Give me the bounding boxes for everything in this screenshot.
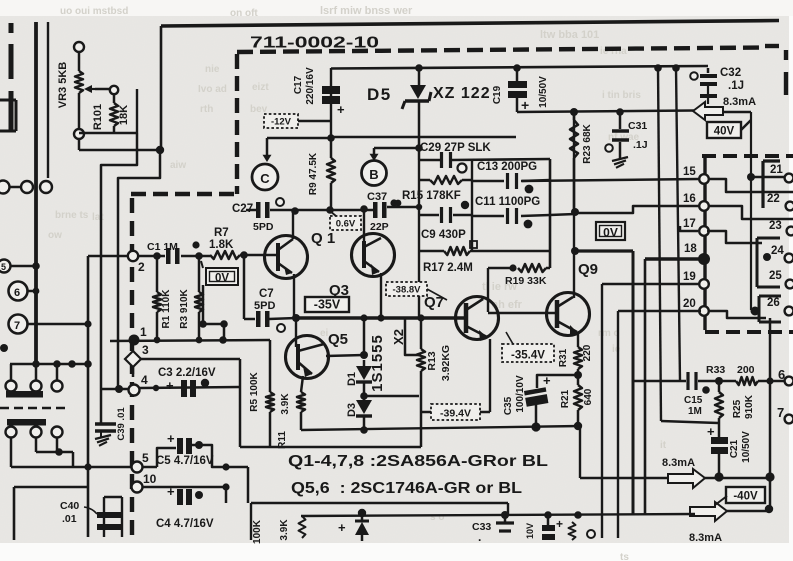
- svg-text:C37: C37: [367, 191, 387, 203]
- svg-text:i tin bris: i tin bris: [602, 90, 641, 101]
- svg-text:R15 178KF: R15 178KF: [402, 190, 461, 202]
- svg-text:R19 33K: R19 33K: [505, 275, 547, 287]
- svg-text:1M: 1M: [688, 406, 702, 417]
- svg-text:10/50V: 10/50V: [741, 431, 752, 463]
- svg-text:Q5: Q5: [328, 331, 348, 348]
- pin 10: [132, 472, 157, 493]
- svg-text:C32: C32: [720, 67, 741, 79]
- svg-text:B: B: [369, 167, 378, 182]
- svg-text:C7: C7: [259, 288, 274, 300]
- node junction C19: [513, 64, 521, 72]
- node VR3 bottom terminal: [74, 129, 84, 139]
- svg-text:0V: 0V: [215, 273, 229, 285]
- label .1J C31: [633, 139, 648, 151]
- dashed border corner top-right: [765, 46, 786, 95]
- dashed border jog horizontal: [131, 192, 237, 196]
- svg-text:Q5,6 : 2SC1746A-GR or BL: Q5,6 : 2SC1746A-GR or BL: [291, 480, 522, 497]
- svg-text:21: 21: [770, 164, 783, 176]
- wire y511: [727, 505, 773, 513]
- svg-text:lsrf miw bnss wer: lsrf miw bnss wer: [320, 5, 413, 17]
- svg-text:-40V: -40V: [733, 491, 758, 503]
- resistor R101: [110, 103, 118, 126]
- svg-text:R7: R7: [214, 227, 229, 239]
- wire bus1 elbow to C21: [661, 421, 718, 423]
- label Q1-4,7,8 2SA856A: [288, 453, 548, 470]
- wire right side of pot box: [136, 89, 138, 133]
- label C15: [684, 395, 703, 406]
- svg-text:ow: ow: [48, 230, 62, 241]
- label .1J C32: [728, 80, 744, 92]
- capacitor C4 4.7/16V: [167, 484, 203, 505]
- wire C13 row: [472, 180, 550, 181]
- svg-text:C9 430P: C9 430P: [421, 229, 466, 241]
- svg-text:Q1-4,7,8 :2SA856A-GRor BL: Q1-4,7,8 :2SA856A-GRor BL: [288, 453, 548, 470]
- svg-text:+: +: [167, 431, 175, 446]
- label 10/50V: [538, 76, 549, 108]
- node junction: [327, 134, 335, 142]
- svg-text:10/50V: 10/50V: [538, 76, 549, 108]
- pin 16: [683, 193, 709, 211]
- wire y324 link: [199, 320, 228, 328]
- ground C39: [95, 435, 111, 446]
- capacitor C7 5PD: [256, 311, 285, 332]
- wire pin16 feed y206: [575, 206, 699, 213]
- svg-text:5: 5: [142, 451, 149, 465]
- label C39 .01: [116, 407, 127, 441]
- label 8.3mA bottom: [689, 532, 722, 544]
- wire 40V leader: [741, 120, 751, 130]
- capacitor C37 22P: [373, 199, 398, 218]
- label D5: [367, 85, 392, 104]
- svg-text:-35V: -35V: [314, 298, 341, 312]
- wire 0.6V leader: [330, 211, 336, 216]
- label + bottom small: [556, 517, 563, 531]
- label D3: [346, 403, 358, 417]
- wire VR3 stem down: [78, 139, 81, 150]
- pin 6: [778, 367, 793, 385]
- label 8.3mA middle: [662, 457, 695, 469]
- label -35.4V dotted box: [502, 332, 554, 362]
- node junction Q1 collector: [291, 207, 299, 215]
- wire Q5 emitter down: [301, 376, 303, 392]
- wire C32 corner: [707, 68, 710, 73]
- label IS1555: [369, 334, 386, 392]
- resistor R1 110K: [153, 256, 161, 340]
- node junction x574 y251: [571, 247, 579, 255]
- wire pin10 right: [142, 483, 230, 490]
- label -40V box: [726, 487, 765, 503]
- resistor R9 47.5K: [327, 138, 335, 210]
- pin 1: [129, 325, 148, 346]
- resistor small bottom: [299, 516, 306, 538]
- label C17: [293, 75, 304, 94]
- svg-text:C40: C40: [60, 500, 79, 512]
- connector box around 24-25: [757, 238, 780, 287]
- svg-text:7: 7: [777, 405, 784, 420]
- label 8.3mA top: [723, 96, 756, 108]
- wire -12V leader: [298, 120, 331, 123]
- wire bus1 x659: [658, 68, 661, 421]
- capacitor C19: [508, 81, 527, 98]
- label Q9: [578, 261, 598, 278]
- capacitor C5 4.7/16V: [167, 431, 203, 454]
- connector box around 21: [763, 161, 780, 208]
- wire C11 row: [472, 215, 550, 216]
- svg-text:910K: 910K: [744, 394, 755, 419]
- svg-text:C3 2.2/16V: C3 2.2/16V: [158, 367, 216, 379]
- potentiometer VR3 5KB: [75, 71, 83, 93]
- svg-text:R9 47.5K: R9 47.5K: [308, 152, 319, 195]
- terminal circle pair: [0, 181, 52, 194]
- pin 2: [128, 251, 145, 274]
- terminal 5: [0, 260, 40, 273]
- resistor R11 3.9K: [297, 392, 305, 412]
- wire step from junction down-left: [118, 150, 160, 390]
- wire bottom box top y503: [251, 502, 508, 504]
- node junction y426: [574, 422, 582, 430]
- transistor Q2: [352, 209, 395, 322]
- label X2: [391, 329, 406, 345]
- wire C19 stem: [516, 68, 519, 81]
- wire y467 right: [226, 466, 248, 469]
- wire pin4 right: [140, 387, 240, 388]
- current arrow 8.3mA right: [668, 469, 705, 488]
- diode D3: [356, 382, 372, 430]
- svg-text:C35: C35: [503, 396, 514, 415]
- wire pin4 left: [101, 385, 128, 393]
- label C5 4.7/16V: [156, 455, 214, 467]
- label 3.9K: [280, 393, 291, 415]
- label R7: [214, 227, 229, 239]
- node junction C21 bottom: [714, 472, 723, 481]
- wire C35 top: [537, 375, 578, 388]
- capacitor C32: [690, 72, 717, 104]
- pin 7: [777, 405, 793, 423]
- wire R33 out: [758, 377, 784, 384]
- label C35: [503, 396, 514, 415]
- svg-text:R25: R25: [732, 399, 743, 418]
- wire R19 row: [488, 264, 550, 272]
- node junction R23: [570, 108, 578, 116]
- capacitor C11 1100PG: [508, 208, 533, 228]
- wire rail x419: [418, 160, 420, 318]
- svg-text:23: 23: [769, 220, 782, 232]
- transistor Q9: [547, 293, 590, 337]
- node junction x770 y477: [765, 472, 774, 481]
- svg-text:R5 100K: R5 100K: [249, 371, 260, 411]
- resistor R15 178KF: [419, 176, 472, 184]
- pin 24: [771, 245, 793, 262]
- label C1 1M: [147, 241, 200, 253]
- svg-text:22: 22: [767, 193, 780, 205]
- svg-text:R3 910K: R3 910K: [179, 288, 190, 328]
- wire x224 down: [219, 324, 227, 344]
- wire y112 rail: [517, 111, 694, 113]
- diode D1: [356, 360, 372, 382]
- node junction C3 left: [153, 385, 159, 391]
- decorative bleed-through: [48, 5, 667, 561]
- svg-text:C: C: [260, 171, 270, 186]
- svg-text:brne ts: brne ts: [55, 210, 89, 221]
- wire vertical x48: [47, 22, 49, 178]
- wire pin15 to pin22: [709, 179, 793, 192]
- svg-text:VR3 5KB: VR3 5KB: [57, 62, 69, 109]
- wire D5 box bottom right: [331, 136, 516, 139]
- svg-text:100/10V: 100/10V: [515, 375, 526, 413]
- capacitor C17 220/16V: [322, 86, 345, 117]
- pin 18 junction: [684, 243, 710, 265]
- wire step box corner down-left: [101, 133, 137, 424]
- switch bar upper: [6, 391, 43, 398]
- svg-text:100K: 100K: [252, 519, 263, 544]
- wire wiper to R101: [95, 88, 110, 91]
- svg-text:5PD: 5PD: [253, 221, 274, 233]
- svg-text:1S1555: 1S1555: [369, 334, 386, 392]
- terminal 6: [9, 282, 40, 301]
- resistor R5 100K: [266, 340, 274, 447]
- dashed border top-left block: [9, 23, 14, 130]
- wire pin5 right: [142, 466, 157, 469]
- resistor R25 910K: [715, 381, 723, 418]
- wire to terminal B: [374, 144, 423, 152]
- label C13 200PG: [477, 161, 537, 173]
- svg-text:26: 26: [767, 297, 780, 309]
- svg-text:ie: ie: [612, 344, 621, 355]
- wire rail x550: [549, 159, 552, 268]
- svg-text:.1J: .1J: [728, 80, 744, 92]
- svg-text:8.3mA: 8.3mA: [689, 532, 722, 544]
- svg-text:C1 1M: C1 1M: [147, 241, 178, 253]
- label C29 27P SLK: [420, 142, 491, 154]
- wire C5 elbow: [157, 448, 176, 467]
- wire y478: [580, 477, 668, 479]
- wire net top y160: [419, 159, 550, 160]
- svg-text:s o: s o: [430, 512, 444, 523]
- svg-text:ltw bba 101: ltw bba 101: [540, 29, 599, 41]
- label -12V dotted box: [264, 114, 298, 128]
- label R9 47.5K: [308, 152, 319, 195]
- capacitor C21 10/50V: [711, 418, 728, 477]
- wire main y318 thick: [296, 316, 466, 320]
- label 40V box: [707, 122, 741, 138]
- label 1M: [688, 386, 710, 417]
- svg-text:R33: R33: [706, 364, 725, 376]
- wire D5 box bottom left: [267, 137, 331, 140]
- svg-text:25: 25: [769, 270, 782, 282]
- label 3.9K bottom: [279, 519, 290, 541]
- svg-text:+: +: [707, 424, 715, 439]
- dashed border 711-0002-10 block top: [237, 48, 765, 53]
- label R13: [426, 351, 438, 370]
- capacitor C31 .1J: [605, 112, 629, 159]
- wire C7 out: [269, 318, 296, 319]
- svg-text:R13: R13: [426, 351, 438, 370]
- dashed border left lower: [130, 198, 134, 540]
- switch contacts upper: [6, 381, 63, 392]
- svg-text:on oft: on oft: [230, 8, 258, 19]
- wire y396 to R13: [364, 395, 419, 398]
- label R3 910K: [179, 288, 190, 328]
- wire R21 bottom: [577, 410, 580, 426]
- label 10/50V C21: [741, 431, 752, 463]
- svg-text:nie: nie: [205, 64, 220, 75]
- wire VR3 top: [78, 52, 81, 71]
- svg-text:-35.4V: -35.4V: [511, 350, 545, 362]
- node junction x160: [156, 146, 164, 154]
- label -39.4V dotted box: [431, 404, 480, 420]
- pin 20: [683, 298, 709, 316]
- node junction D bottom: [360, 426, 368, 434]
- label 100K bottom: [252, 519, 263, 544]
- node junction Q5 base: [292, 314, 300, 322]
- switch stems lower: [11, 437, 57, 467]
- box bottom-left corner: [14, 487, 88, 540]
- svg-text:eizt: eizt: [252, 82, 269, 93]
- capacitor C33: [472, 511, 514, 544]
- label R33 200: [706, 364, 755, 376]
- wire x248 down: [247, 467, 250, 503]
- svg-text:lat: lat: [92, 212, 104, 223]
- svg-text:1.8K: 1.8K: [209, 239, 234, 251]
- switch bar lower: [7, 419, 46, 426]
- svg-text:C33: C33: [472, 521, 491, 533]
- svg-text:-12V: -12V: [271, 117, 292, 128]
- wire pin17 to box: [707, 231, 762, 243]
- svg-text:20: 20: [683, 298, 696, 310]
- pin 19: [683, 271, 709, 289]
- label C4 4.7/16V: [156, 518, 214, 530]
- wire pin1 y340: [110, 337, 270, 344]
- label R25: [732, 399, 743, 418]
- connector bus x705: [703, 156, 706, 330]
- wiper arrow VR3: [84, 85, 95, 93]
- svg-text:R31: R31: [558, 348, 569, 367]
- capacitor C27 5PD: [256, 198, 284, 218]
- wire stem to C terminal: [263, 138, 272, 162]
- zener diode D5 symbol: [402, 85, 431, 109]
- label 10V bottom: [525, 523, 535, 539]
- pin 17: [683, 218, 709, 236]
- svg-text:8.3mA: 8.3mA: [662, 457, 695, 469]
- wire Q9 collector up x574: [573, 116, 575, 298]
- label + C21: [707, 424, 715, 439]
- wire C7 left: [244, 318, 255, 321]
- label 100/10V: [515, 375, 526, 413]
- wire R101 top: [113, 94, 116, 103]
- pin 3: [125, 343, 149, 377]
- pin 15: [683, 166, 709, 184]
- wire vertical x161 from top rail: [160, 26, 163, 150]
- pin 26: [767, 297, 793, 315]
- svg-text:18K: 18K: [118, 105, 130, 125]
- switch link wire: [36, 448, 73, 467]
- transistor Q7: [456, 297, 499, 342]
- node stray dot: [0, 344, 8, 352]
- label R5 100K: [249, 371, 260, 411]
- svg-text:5: 5: [1, 262, 6, 272]
- wire y467 to pin5: [11, 463, 131, 470]
- label R1 110K: [161, 289, 172, 329]
- label D1: [346, 372, 358, 386]
- svg-text:XZ 122: XZ 122: [433, 85, 491, 102]
- svg-text:220: 220: [582, 344, 593, 361]
- node junction bus1: [654, 64, 662, 72]
- wire main top rail y68: [331, 66, 708, 69]
- wire y256 from x88 to pin2: [88, 255, 128, 258]
- dashed border connector top: [702, 154, 793, 158]
- label C7: [259, 288, 274, 300]
- svg-text:4: 4: [141, 373, 148, 387]
- label 1.8K: [209, 239, 234, 251]
- node junction R33: [715, 377, 723, 385]
- terminal C: [252, 164, 278, 190]
- wire y478 right: [705, 477, 770, 480]
- wire rail x472: [471, 160, 473, 251]
- wire y430 long: [301, 426, 580, 430]
- label 0V box right: [596, 222, 625, 240]
- resistor R3 910K: [195, 256, 203, 340]
- svg-text:D3: D3: [346, 403, 358, 417]
- node junction R1 top: [153, 252, 161, 260]
- label 220/16V: [305, 67, 316, 105]
- pin 23: [769, 220, 793, 235]
- wire Q5 collector out: [326, 355, 364, 356]
- label 0V box upper: [201, 261, 238, 285]
- capacitor C29 27P SLK: [442, 152, 467, 173]
- label -35V box: [305, 297, 349, 312]
- current arrow 8.3mA bottom: [690, 496, 727, 521]
- pin 4: [129, 373, 149, 396]
- label R21: [560, 389, 571, 408]
- wire y210 node row: [246, 209, 375, 212]
- svg-text:3.9K: 3.9K: [280, 393, 291, 415]
- pin 5: [132, 451, 150, 473]
- svg-text:0.6V: 0.6V: [336, 219, 356, 230]
- label C32: [720, 67, 741, 79]
- label R17 2.4M: [423, 241, 477, 274]
- wire Q9 emitter: [577, 333, 579, 347]
- label C31: [628, 120, 647, 132]
- wire pin16 to pin23: [709, 206, 793, 219]
- svg-text:8.3mA: 8.3mA: [723, 96, 756, 108]
- svg-text:10: 10: [143, 472, 157, 486]
- svg-text:C29 27P SLK: C29 27P SLK: [420, 142, 491, 154]
- resistor R21 640: [574, 385, 582, 410]
- svg-text:18: 18: [684, 243, 697, 255]
- label 220: [582, 344, 593, 361]
- wire y214 link: [550, 214, 575, 215]
- adjacent block outline top-left: [0, 100, 16, 131]
- label C9 430P: [421, 229, 466, 241]
- svg-text:R101: R101: [92, 104, 104, 130]
- terminal B: [362, 161, 387, 186]
- svg-text:uo oui mstbsd: uo oui mstbsd: [60, 6, 128, 17]
- svg-text:Q9: Q9: [578, 261, 598, 278]
- terminal 7: [9, 315, 92, 334]
- svg-text:711-0002-10: 711-0002-10: [250, 35, 379, 52]
- wire y112 to right bus: [722, 111, 751, 114]
- node junction near pin26: [751, 307, 760, 316]
- wire pin20 to pin26: [709, 311, 766, 318]
- label R19 33K: [505, 275, 547, 287]
- node junction bus2: [672, 64, 680, 72]
- svg-text:C13 200PG: C13 200PG: [477, 161, 537, 173]
- svg-text:15: 15: [683, 166, 696, 178]
- wire pin17 feed: [680, 226, 698, 231]
- wire x633 down: [632, 251, 635, 515]
- wire pin20 feed: [618, 310, 701, 313]
- wire y412: [421, 411, 490, 414]
